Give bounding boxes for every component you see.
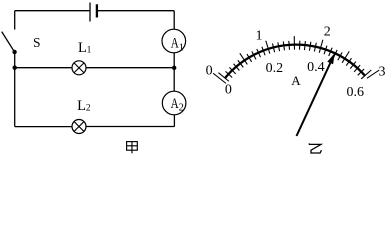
svg-text:L: L: [78, 40, 87, 56]
svg-text:3: 3: [379, 65, 386, 80]
svg-text:2: 2: [324, 25, 331, 40]
svg-text:A: A: [291, 73, 301, 88]
svg-text:1: 1: [87, 46, 92, 56]
svg-text:0: 0: [206, 64, 213, 79]
svg-text:2: 2: [179, 102, 184, 113]
svg-text:0.4: 0.4: [307, 60, 325, 75]
svg-text:2: 2: [86, 104, 91, 114]
svg-text:0.2: 0.2: [266, 61, 284, 76]
svg-text:S: S: [33, 35, 41, 50]
svg-text:1: 1: [256, 29, 263, 44]
svg-text:L: L: [77, 98, 86, 114]
svg-text:0: 0: [225, 83, 232, 98]
svg-text:0.6: 0.6: [346, 85, 364, 100]
svg-text:1: 1: [179, 42, 184, 53]
